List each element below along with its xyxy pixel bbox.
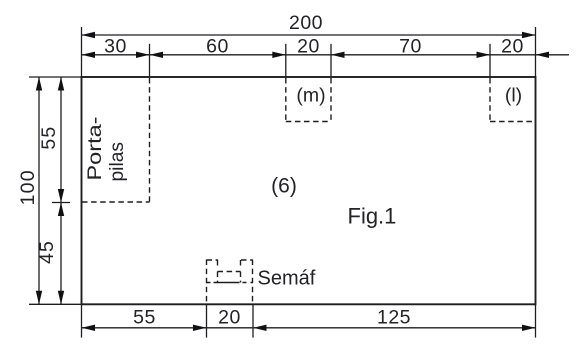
svg-text:30: 30 [104,36,127,58]
dashed right side Semaf outline [252,260,254,305]
svg-text:20: 20 [501,36,524,58]
dimension line 100 vertical [38,77,40,304]
arrow 30 right [136,52,150,58]
dashed top-left inner vertical Semaf [217,260,219,268]
arrow 200 right [522,32,536,38]
svg-text:Semáf: Semáf [258,268,316,290]
arrow 45 top [58,203,64,217]
svg-text:60: 60 [206,36,229,58]
arrow bottom 55 right [193,325,207,331]
extension tick at x=253 bottom [252,304,254,337]
extension tick at x=149.5 top [149,44,151,77]
arrow 70 left [331,52,345,58]
dashed top-left corner Semaf [207,259,219,261]
extension line above right edge [535,27,537,77]
extension tick at x=285.8 top [285,44,287,77]
svg-text:Fig.1: Fig.1 [348,204,397,229]
svg-text:55: 55 [133,307,156,329]
arrow bottom 125 right [522,325,536,331]
arrow 200 left [82,32,96,38]
svg-text:(6): (6) [271,175,297,198]
extension line left of bottom edge [29,303,81,305]
main panel outline [82,77,536,304]
svg-text:(l): (l) [505,85,522,107]
extension line below left edge [81,304,83,337]
extension line above left edge [81,27,83,77]
svg-text:pilas: pilas [107,142,128,182]
dashed inner box top Semaf [218,271,241,273]
extension tick at x=206.5 bottom [206,304,208,337]
svg-text:125: 125 [377,307,411,329]
svg-text:100: 100 [17,169,39,205]
svg-text:Porta-: Porta- [85,117,106,181]
dashed left edge box (l) [489,78,491,122]
svg-text:55: 55 [38,126,60,150]
arrow 70 right [477,52,491,58]
extension line left of top edge [29,76,81,78]
arrow 30 left [82,52,96,58]
extension tick at x=490 top [489,44,491,77]
arrow 55 top [58,77,64,91]
arrow 60 left [150,52,164,58]
arrow 60 right [272,52,286,58]
dashed left side Semaf outline [206,260,208,305]
arrow 45 bottom [58,291,64,305]
arrow 20 outside right [536,52,550,58]
dashed inner box right Semaf [240,272,242,283]
extension line below right edge [535,304,537,337]
dimension line 200 [82,34,536,36]
boundary tick 55/45 [52,202,70,204]
extension tick at x=331 top [330,44,332,77]
dashed inner box left Semaf [217,272,219,283]
svg-text:(m): (m) [296,85,325,107]
svg-text:20: 20 [218,307,241,329]
arrow bottom 55 left [82,325,96,331]
svg-text:70: 70 [399,36,422,58]
arrow 55 bottom [58,189,64,203]
arrow bottom 125 left [253,325,267,331]
dashed bottom edge box (m) [286,121,331,123]
dimension line segments 30/60/20/70/20 [82,54,570,56]
dashed right edge Porta-pilas box [149,78,151,202]
dashed bottom edge box (l) [490,121,536,123]
dashed bottom edge Porta-pilas box [82,201,150,203]
dashed base line Semaf [207,282,253,284]
dimension line 55/45 vertical [60,77,62,304]
svg-text:20: 20 [297,36,320,58]
svg-text:45: 45 [36,240,58,264]
dashed top-right corner Semaf [241,259,253,261]
svg-text:200: 200 [289,12,323,34]
dashed top-right inner vertical Semaf [240,260,242,268]
arrow 100 bottom [36,291,42,305]
dashed left edge box (m) [285,78,287,122]
dashed right edge box (m) [330,78,332,122]
arrow 100 top [36,77,42,91]
dimension line bottom 55/20/125 [82,327,536,329]
